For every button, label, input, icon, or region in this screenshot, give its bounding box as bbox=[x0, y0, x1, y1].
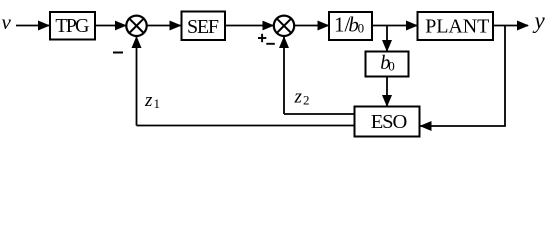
label z1 bbox=[144, 90, 160, 111]
wire z2 feedback up into S2 bbox=[283, 37, 285, 114]
wire S1 to SEF bbox=[147, 25, 181, 27]
wire 1/b0 to PLANT bbox=[372, 25, 417, 27]
block ESO bbox=[355, 107, 420, 137]
wire v to TPG bbox=[16, 25, 49, 27]
svg-text:z: z bbox=[144, 90, 153, 111]
svg-text:2: 2 bbox=[303, 93, 310, 108]
wire b0 down to ESO bbox=[386, 77, 388, 107]
wire z2 from ESO left bbox=[284, 113, 355, 115]
svg-text:0: 0 bbox=[388, 58, 395, 73]
svg-text:y: y bbox=[533, 8, 546, 33]
wire S2 to 1/b0 bbox=[294, 25, 329, 27]
wire TPG to summing junction S1 bbox=[95, 25, 126, 27]
block b0 bbox=[366, 52, 409, 77]
plus sign at S2 bbox=[258, 34, 266, 42]
svg-text:SEF: SEF bbox=[187, 16, 219, 38]
summing junction S1 bbox=[126, 16, 146, 36]
block 1/b0 bbox=[329, 12, 372, 40]
block TPG bbox=[50, 12, 95, 40]
wire SEF to summing junction S2 bbox=[225, 25, 273, 27]
svg-text:1: 1 bbox=[154, 96, 161, 111]
summing junction S2 bbox=[274, 16, 294, 36]
wire z1 from ESO left bbox=[137, 125, 355, 127]
svg-text:v: v bbox=[2, 10, 12, 34]
wire branch down to b0 bbox=[386, 26, 388, 52]
minus sign at S1 bbox=[113, 52, 123, 54]
wire PLANT to y bbox=[493, 25, 528, 27]
block PLANT bbox=[418, 12, 494, 40]
block SEF bbox=[182, 12, 226, 41]
svg-text:0: 0 bbox=[358, 21, 365, 36]
wire z1 feedback up into S1 bbox=[136, 37, 138, 126]
label z2 bbox=[294, 87, 310, 108]
minus sign at S2 bbox=[266, 43, 275, 45]
wire y feedback down and left into ESO right bbox=[421, 26, 506, 127]
svg-text:TPG: TPG bbox=[55, 15, 89, 37]
svg-text:z: z bbox=[294, 87, 303, 108]
svg-text:PLANT: PLANT bbox=[425, 15, 489, 37]
svg-text:ESO: ESO bbox=[371, 111, 408, 133]
